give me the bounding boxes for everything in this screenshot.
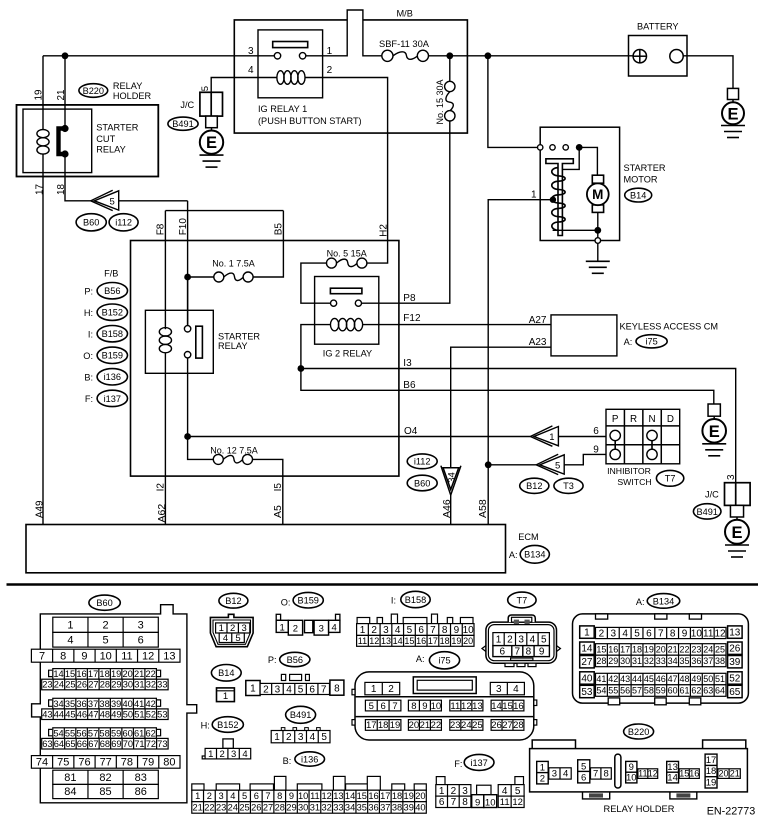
starter motor solenoid spring [552, 168, 565, 231]
svg-text:44: 44 [54, 709, 64, 719]
wire fuse No.5 left to IG2 relay contact [301, 263, 331, 303]
svg-text:8: 8 [462, 797, 468, 808]
svg-text:B152: B152 [102, 308, 123, 318]
svg-text:21: 21 [134, 669, 144, 679]
svg-text:19: 19 [404, 791, 414, 801]
svg-text:26: 26 [251, 803, 261, 813]
svg-text:i112: i112 [414, 457, 431, 467]
svg-text:76: 76 [78, 757, 90, 769]
svg-text:62: 62 [691, 686, 701, 696]
connector B60 cells 81-83 [53, 770, 159, 784]
svg-text:17: 17 [620, 645, 630, 655]
svg-text:No. 5 15A: No. 5 15A [327, 248, 367, 258]
svg-text:P: P [612, 414, 619, 425]
svg-text:49: 49 [691, 674, 701, 684]
connector arrow 1 (inhibitor pin 6) [530, 426, 552, 446]
svg-text:49: 49 [111, 709, 121, 719]
svg-text:1: 1 [223, 691, 228, 702]
svg-text:22: 22 [679, 645, 689, 655]
svg-text:40: 40 [581, 673, 593, 684]
connector i75 row2 cells [365, 700, 401, 711]
svg-text:A:: A: [636, 597, 645, 607]
connector T7 bottom bar and feet [511, 658, 533, 660]
svg-text:H:: H: [201, 721, 210, 731]
svg-text:B158: B158 [102, 329, 123, 339]
svg-text:1: 1 [280, 622, 285, 633]
svg-text:B220: B220 [83, 86, 104, 96]
wire contact to plunger [563, 147, 580, 169]
svg-text:26: 26 [729, 644, 741, 655]
connector B60 cells 4-6 [53, 632, 159, 647]
svg-text:64: 64 [715, 686, 725, 696]
svg-text:16: 16 [368, 791, 378, 801]
svg-text:SWITCH: SWITCH [617, 477, 651, 487]
svg-text:36: 36 [76, 699, 86, 709]
connector i136 cells 1-20 [192, 790, 426, 802]
connector i75 side nubs [352, 689, 355, 695]
svg-text:6: 6 [439, 797, 445, 808]
svg-text:19: 19 [390, 720, 401, 731]
svg-text:34: 34 [668, 656, 678, 666]
svg-text:7: 7 [321, 684, 327, 695]
svg-text:12: 12 [715, 628, 727, 639]
IG2 relay contact circles [331, 300, 337, 306]
svg-text:B12: B12 [225, 596, 241, 606]
svg-text:29: 29 [286, 803, 296, 813]
svg-text:P8: P8 [403, 293, 416, 304]
svg-text:B159: B159 [297, 596, 318, 606]
svg-text:HOLDER: HOLDER [113, 91, 152, 101]
svg-text:19: 19 [644, 645, 654, 655]
svg-text:No. 1 7.5A: No. 1 7.5A [212, 258, 255, 268]
svg-text:20: 20 [415, 791, 425, 801]
svg-text:B134: B134 [653, 596, 674, 606]
svg-text:1: 1 [549, 432, 554, 443]
svg-text:9: 9 [454, 625, 460, 636]
svg-text:36: 36 [368, 803, 378, 813]
connector B60 cells 1-3 [53, 617, 159, 632]
svg-text:I:: I: [391, 595, 396, 605]
connector B60 oval [89, 595, 120, 610]
svg-text:28: 28 [275, 803, 285, 813]
svg-text:9: 9 [289, 791, 294, 801]
svg-text:8: 8 [603, 769, 608, 780]
svg-text:3: 3 [552, 769, 557, 780]
connector B134 cells 41-51 [596, 673, 727, 685]
svg-text:53: 53 [581, 687, 593, 698]
svg-text:46: 46 [77, 709, 87, 719]
svg-text:24: 24 [703, 645, 713, 655]
svg-text:39: 39 [111, 699, 121, 709]
svg-text:A5: A5 [272, 505, 284, 518]
svg-text:5: 5 [110, 196, 115, 207]
svg-text:18: 18 [440, 636, 450, 646]
svg-text:2: 2 [507, 635, 513, 646]
svg-text:4: 4 [530, 635, 536, 646]
svg-text:38: 38 [99, 699, 109, 709]
ground E symbol at J/C B491 top [206, 116, 218, 128]
svg-text:7: 7 [658, 628, 664, 639]
svg-text:19: 19 [34, 90, 45, 101]
svg-text:13: 13 [729, 628, 741, 639]
connector B159 cells [276, 620, 288, 632]
ground E symbol battery [727, 88, 738, 99]
svg-text:1: 1 [250, 684, 256, 695]
svg-text:21: 21 [56, 90, 67, 101]
svg-text:7: 7 [515, 646, 521, 657]
svg-text:23: 23 [216, 803, 226, 813]
svg-text:9: 9 [629, 762, 634, 773]
svg-text:39: 39 [404, 803, 414, 813]
svg-text:19: 19 [111, 669, 121, 679]
IG 2 relay box [315, 277, 379, 345]
connector B134 cells 54-64 [596, 685, 727, 697]
svg-text:46: 46 [656, 674, 666, 684]
svg-text:12: 12 [648, 769, 658, 779]
oval i112 middle [407, 454, 437, 469]
svg-text:34: 34 [53, 699, 63, 709]
wire junction A58 to arrow 5 [488, 464, 536, 466]
svg-text:25: 25 [239, 803, 249, 813]
svg-text:9: 9 [682, 628, 688, 639]
svg-text:65: 65 [729, 687, 741, 698]
svg-text:B:: B: [283, 756, 292, 766]
svg-text:INHIBITOR: INHIBITOR [607, 466, 651, 476]
svg-text:4: 4 [622, 628, 628, 639]
svg-text:25: 25 [472, 720, 483, 731]
svg-text:18: 18 [99, 669, 109, 679]
svg-text:2: 2 [371, 625, 377, 636]
svg-text:25: 25 [65, 680, 75, 690]
svg-text:3: 3 [275, 684, 281, 695]
svg-text:54: 54 [53, 728, 63, 738]
svg-text:22: 22 [431, 720, 442, 731]
svg-text:5: 5 [541, 635, 547, 646]
svg-text:10: 10 [298, 791, 308, 801]
svg-text:B158: B158 [405, 595, 426, 605]
svg-text:10: 10 [100, 650, 112, 662]
svg-text:P:: P: [84, 286, 93, 296]
svg-text:18: 18 [378, 720, 389, 731]
junction node O4 / No.12 [184, 433, 191, 440]
svg-text:B220: B220 [628, 727, 649, 737]
connector i137 cells 1-3 6-7-8 [436, 785, 471, 797]
svg-text:E: E [727, 105, 738, 123]
svg-text:I3: I3 [403, 358, 412, 369]
svg-text:6: 6 [418, 625, 424, 636]
svg-text:M: M [592, 187, 603, 202]
svg-text:ECM: ECM [518, 532, 538, 542]
svg-text:44: 44 [632, 674, 642, 684]
svg-text:5: 5 [200, 86, 211, 91]
svg-text:38: 38 [715, 656, 725, 666]
wire pin 17 starter cut relay to ECM A49 [42, 154, 44, 525]
svg-text:RELAY: RELAY [218, 341, 247, 351]
svg-text:75: 75 [57, 757, 69, 769]
svg-text:67: 67 [88, 739, 98, 749]
svg-text:57: 57 [88, 728, 98, 738]
svg-text:B60: B60 [414, 478, 430, 488]
connector T7 side nubs [482, 646, 486, 652]
svg-text:A27: A27 [529, 315, 547, 326]
svg-text:B60: B60 [83, 218, 99, 228]
svg-text:63: 63 [703, 686, 713, 696]
svg-text:37: 37 [380, 803, 390, 813]
svg-text:17: 17 [380, 791, 390, 801]
svg-text:50: 50 [703, 674, 713, 684]
svg-text:30: 30 [123, 680, 133, 690]
svg-text:20: 20 [463, 636, 473, 646]
svg-text:16: 16 [513, 701, 524, 712]
connector B220 cells group 1 [537, 761, 549, 784]
connector B134 tabs [596, 614, 608, 619]
IG2 relay armature bar [330, 288, 362, 294]
svg-text:13: 13 [163, 650, 175, 662]
junction node pin 21 feed [62, 52, 69, 59]
svg-text:37: 37 [703, 656, 713, 666]
connector B56 tabs [281, 674, 285, 680]
svg-text:21: 21 [730, 769, 740, 779]
svg-text:15: 15 [679, 769, 689, 779]
svg-text:11: 11 [121, 650, 132, 662]
svg-text:86: 86 [135, 786, 147, 798]
starter relay contact circles [184, 326, 190, 332]
svg-text:7: 7 [265, 791, 270, 801]
svg-text:T7: T7 [517, 595, 528, 605]
svg-text:23: 23 [42, 680, 52, 690]
svg-text:B12: B12 [526, 481, 542, 491]
svg-text:12: 12 [512, 797, 523, 808]
connector B14 oval [211, 665, 241, 682]
svg-text:17: 17 [88, 669, 98, 679]
svg-text:29: 29 [111, 680, 121, 690]
svg-text:19: 19 [451, 636, 461, 646]
svg-text:28: 28 [100, 680, 110, 690]
svg-text:57: 57 [632, 686, 642, 696]
svg-text:83: 83 [135, 772, 147, 784]
svg-text:F:: F: [85, 394, 93, 404]
connector B220 oval [624, 724, 654, 739]
svg-text:2: 2 [451, 786, 457, 797]
svg-text:E: E [709, 423, 720, 441]
svg-text:17: 17 [366, 720, 377, 731]
svg-text:2: 2 [263, 684, 269, 695]
svg-text:55: 55 [65, 728, 75, 738]
svg-text:J/C: J/C [180, 100, 194, 110]
wire A23 from I3 branch to keyless and down to arrow 34 [451, 347, 551, 467]
motor M with brushes [592, 175, 603, 183]
svg-text:59: 59 [656, 686, 666, 696]
oval B14 starter motor [625, 188, 652, 202]
svg-text:KEYLESS ACCESS CM: KEYLESS ACCESS CM [620, 321, 719, 331]
svg-text:BATTERY: BATTERY [637, 22, 679, 32]
connector B134 right cells 13 26 39 52 65 [728, 626, 743, 638]
svg-text:J/C: J/C [705, 490, 719, 500]
svg-text:13: 13 [333, 791, 343, 801]
connector B220 cells group 2 [578, 760, 590, 783]
IG relay1 contact circles [274, 53, 280, 59]
svg-text:84: 84 [64, 786, 76, 798]
svg-text:7: 7 [39, 650, 45, 662]
svg-text:21: 21 [420, 720, 431, 731]
battery box [629, 36, 688, 77]
connector B134 cells 15-25 [596, 644, 727, 656]
separator line [7, 583, 759, 586]
svg-text:16: 16 [76, 669, 86, 679]
wire arrow 34 to ECM A46 [450, 494, 452, 524]
inhibitor switch contacts P and N [610, 430, 620, 440]
svg-text:31: 31 [310, 803, 320, 813]
svg-text:1: 1 [274, 732, 280, 743]
svg-text:20: 20 [656, 645, 666, 655]
connector B220 cells group 5 [705, 754, 717, 788]
svg-text:35: 35 [357, 803, 367, 813]
svg-text:27: 27 [502, 720, 513, 731]
svg-text:12: 12 [461, 701, 472, 712]
svg-text:23: 23 [691, 645, 701, 655]
wire H2 from IG relay1 pin 2 to fuse No.5 [323, 78, 388, 264]
svg-text:4: 4 [230, 791, 235, 801]
svg-text:IG 2 RELAY: IG 2 RELAY [323, 349, 372, 359]
connector B134 cells 28-38 [596, 655, 727, 667]
svg-text:18: 18 [706, 766, 717, 777]
svg-text:81: 81 [64, 772, 76, 784]
starter motor contact circles [538, 145, 543, 150]
svg-text:10: 10 [691, 628, 703, 639]
svg-text:T7: T7 [665, 474, 676, 484]
svg-text:STARTER: STARTER [218, 331, 260, 341]
svg-text:21: 21 [192, 803, 202, 813]
svg-text:35: 35 [679, 656, 689, 666]
svg-text:18: 18 [632, 645, 642, 655]
svg-text:B491: B491 [172, 119, 193, 129]
svg-text:70: 70 [123, 739, 133, 749]
svg-text:34: 34 [345, 803, 355, 813]
svg-text:8: 8 [277, 791, 282, 801]
fuse No. 15 30A vertical [449, 56, 451, 82]
junction node starter motor feed tap [485, 52, 492, 59]
svg-text:50: 50 [123, 709, 133, 719]
svg-text:4: 4 [563, 769, 568, 780]
svg-text:30: 30 [620, 656, 630, 666]
svg-text:5: 5 [369, 701, 374, 712]
svg-text:40: 40 [415, 803, 425, 813]
svg-text:(PUSH BUTTON START): (PUSH BUTTON START) [258, 116, 362, 126]
J/C connector top (B491) [211, 78, 258, 93]
svg-text:5: 5 [235, 633, 240, 644]
svg-text:D: D [667, 414, 674, 425]
svg-text:11: 11 [500, 797, 510, 808]
svg-text:15: 15 [502, 701, 513, 712]
svg-text:4: 4 [332, 622, 337, 633]
svg-text:14: 14 [491, 701, 502, 712]
svg-text:18: 18 [392, 791, 402, 801]
svg-text:3: 3 [231, 749, 236, 760]
svg-text:58: 58 [99, 728, 109, 738]
junction node motor low side [594, 227, 601, 234]
svg-text:8: 8 [526, 646, 532, 657]
svg-text:17: 17 [428, 636, 438, 646]
svg-text:14: 14 [581, 644, 593, 655]
connector B60 cells 34-42 [53, 698, 157, 709]
svg-text:O:: O: [281, 597, 291, 607]
starter cut relay contact [59, 129, 66, 155]
svg-text:1: 1 [208, 749, 213, 760]
wire fuse No.12 to I5/A5 [253, 459, 283, 524]
wire O4 to inhibitor arrow [188, 436, 531, 438]
svg-text:1: 1 [584, 628, 590, 639]
svg-text:4: 4 [248, 65, 254, 76]
connector B60 cells 74-80 [31, 756, 180, 769]
svg-text:85: 85 [99, 786, 111, 798]
svg-text:6: 6 [646, 628, 652, 639]
svg-text:A58: A58 [477, 499, 489, 518]
wire junction to spring bottom [553, 229, 598, 231]
svg-text:1: 1 [195, 791, 200, 801]
svg-text:I5: I5 [273, 483, 284, 492]
svg-text:13: 13 [667, 762, 678, 773]
starter relay coil [159, 328, 171, 336]
svg-text:9: 9 [81, 650, 87, 662]
oval B60 [76, 214, 106, 231]
svg-text:63: 63 [42, 739, 52, 749]
connector B491 cells [271, 731, 330, 743]
svg-text:7: 7 [451, 797, 457, 808]
battery terminal positive [633, 50, 646, 63]
svg-text:6: 6 [309, 684, 315, 695]
svg-text:7: 7 [430, 625, 436, 636]
svg-text:28: 28 [513, 720, 524, 731]
connector B60 cells 23-33 [42, 679, 168, 690]
svg-text:R: R [630, 414, 637, 425]
svg-text:82: 82 [99, 772, 111, 784]
svg-text:2: 2 [293, 624, 298, 635]
svg-text:74: 74 [36, 757, 48, 769]
wire fuse No.1 to B5 tab [253, 211, 283, 277]
svg-text:65: 65 [65, 739, 75, 749]
svg-text:22: 22 [204, 803, 214, 813]
wire motor to bottom junction [597, 212, 599, 230]
svg-text:4: 4 [286, 684, 292, 695]
svg-text:B56: B56 [287, 655, 303, 665]
svg-text:14: 14 [345, 791, 355, 801]
connector B158 tabs [357, 618, 370, 624]
svg-text:59: 59 [111, 728, 121, 738]
svg-text:15: 15 [404, 636, 414, 646]
svg-text:80: 80 [163, 757, 175, 769]
svg-text:14: 14 [53, 669, 63, 679]
svg-text:27: 27 [88, 680, 98, 690]
IG relay1 coil [277, 71, 284, 85]
starter motor case terminal circle [597, 230, 599, 238]
connector B12 oval [219, 593, 248, 608]
wire pin 18 down and right to connector arrow [65, 154, 91, 201]
wire F8 tab to starter relay coil [164, 211, 166, 330]
svg-text:17: 17 [706, 755, 717, 766]
svg-text:E: E [206, 134, 217, 152]
svg-text:41: 41 [134, 699, 144, 709]
svg-text:2: 2 [599, 628, 605, 639]
svg-text:34: 34 [446, 472, 457, 483]
svg-text:24: 24 [228, 803, 238, 813]
connector B60 cells 43-53 [42, 709, 168, 720]
svg-text:60: 60 [122, 728, 132, 738]
connector B60 cells 63-73 [42, 738, 168, 749]
svg-text:B491: B491 [290, 710, 311, 720]
svg-text:56: 56 [76, 728, 86, 738]
svg-text:A:: A: [509, 550, 518, 560]
svg-text:68: 68 [100, 739, 110, 749]
